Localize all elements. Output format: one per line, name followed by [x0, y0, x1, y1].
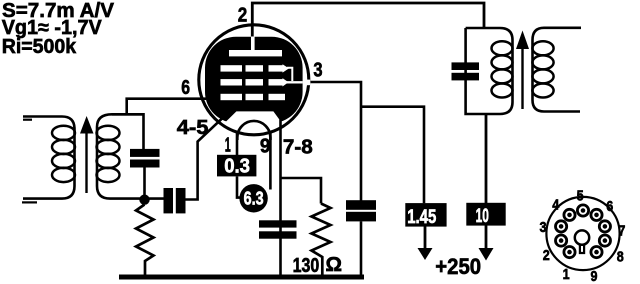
T1 tuning arrow: [85, 130, 87, 193]
svg-text:2: 2: [543, 247, 550, 264]
socket pin 3: [556, 221, 567, 232]
socket pin 6: [591, 209, 602, 220]
supply arrow below 1.45: [424, 227, 427, 250]
node junction dot: [139, 195, 149, 205]
wire screen pin3: [311, 82, 362, 201]
T1 terminal dashes: [23, 119, 32, 121]
svg-text:5: 5: [577, 188, 584, 205]
wire screen feed branch: [361, 107, 424, 204]
tube V1 cathode (heater arch): [237, 121, 270, 140]
tube V1 grid g3: [221, 65, 243, 71]
transformer T1 primary: [23, 117, 75, 199]
svg-text:7: 7: [618, 223, 625, 240]
capacitor C2 coupling: [164, 188, 174, 213]
svg-text:3: 3: [313, 60, 322, 82]
tube V1 internals blob: [205, 37, 303, 123]
svg-text:6: 6: [181, 77, 190, 99]
svg-text:Ω: Ω: [326, 254, 343, 276]
voltage circle 6.3: [239, 184, 267, 212]
socket pin 8: [599, 235, 610, 246]
svg-text:4: 4: [552, 196, 560, 213]
wire 0.3 box to 6.3 circle: [237, 177, 241, 198]
voltage box 1.45: [405, 203, 446, 227]
wire grid node to C1: [112, 114, 144, 149]
svg-text:7-8: 7-8: [283, 136, 313, 158]
svg-text:6: 6: [606, 198, 613, 215]
socket pin 7: [599, 221, 610, 232]
resistor R1 grid leak: [136, 205, 154, 278]
supply arrow below 10: [485, 226, 488, 250]
svg-text:9: 9: [260, 136, 271, 158]
wire heater pin1: [236, 132, 239, 155]
svg-text:1: 1: [225, 135, 231, 157]
socket pin 9: [591, 247, 602, 258]
T2 tuning arrow: [521, 48, 523, 109]
svg-text:0.3: 0.3: [224, 156, 250, 178]
capacitor C4 screen bypass: [346, 200, 376, 210]
svg-text:2: 2: [238, 4, 248, 26]
ground bus: [119, 275, 364, 280]
tube V1 grid g2: [221, 79, 243, 85]
wire tank to 10 box: [485, 114, 488, 203]
voltage box 10: [466, 203, 505, 226]
svg-text:+250: +250: [435, 254, 481, 279]
capacitor C5 tank: [452, 62, 480, 70]
capacitor C3 cathode bypass: [259, 220, 297, 227]
resistor R2 cathode 130 ohm: [312, 204, 331, 276]
svg-text:9: 9: [591, 268, 598, 284]
socket outline: [546, 197, 619, 270]
wire C4 to ground bus: [360, 221, 363, 276]
svg-text:1.45: 1.45: [407, 207, 436, 228]
T2 primary coils: [492, 41, 513, 97]
tube V1 g3-g2 strap: [287, 68, 292, 81]
capacitor C1 grid tuning: [130, 149, 160, 157]
current box 0.3: [217, 155, 256, 177]
transformer T2 secondary: [533, 28, 582, 112]
tube V1 pin3 exit gap: [303, 80, 310, 86]
T1 secondary coils: [97, 126, 120, 182]
T1 primary coils: [52, 126, 75, 182]
socket pin 4: [564, 209, 575, 220]
wire C1 to junction: [143, 168, 146, 200]
tube V1 cathode notch: [222, 111, 282, 125]
socket pin 1: [564, 247, 575, 258]
svg-text:8: 8: [617, 249, 624, 266]
tube V1 anode: [229, 50, 282, 56]
wire grid pin6: [127, 99, 206, 115]
svg-text:Ri=500k: Ri=500k: [2, 36, 77, 58]
wire cathode to R2: [281, 178, 322, 204]
svg-text:130: 130: [293, 255, 320, 277]
tube V1 envelope: [199, 25, 309, 135]
svg-text:10: 10: [476, 206, 489, 227]
wire anode pin2 to output tank: [252, 3, 484, 37]
svg-text:4-5: 4-5: [177, 117, 209, 139]
transformer T1 secondary: [97, 114, 164, 198]
socket pin 5: [577, 205, 588, 216]
transformer T2 primary tank: [466, 28, 513, 114]
wire heater pin9: [269, 131, 272, 190]
tube V1 grid g1: [221, 94, 243, 100]
tube V1 anode lead: [251, 36, 255, 51]
wire C2 to heater lead 4-5: [186, 111, 231, 200]
socket pin 2: [556, 235, 567, 246]
socket key: [575, 230, 589, 244]
svg-text:1: 1: [563, 266, 570, 283]
svg-text:6.3: 6.3: [244, 188, 264, 208]
wire cathode pins 7-8: [279, 120, 282, 276]
T2 secondary coils: [532, 41, 553, 97]
svg-text:3: 3: [540, 219, 547, 236]
